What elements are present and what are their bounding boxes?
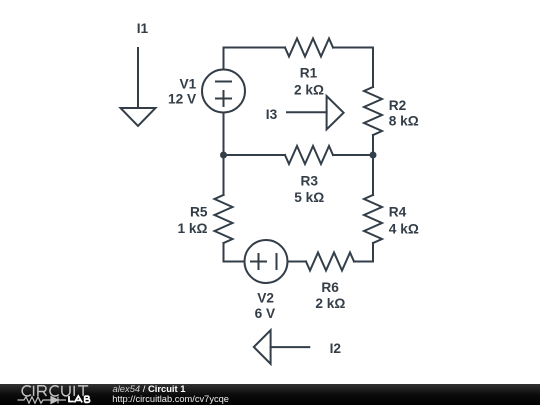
logo LAB lettering: [69, 396, 90, 402]
resistor R4: [364, 195, 382, 243]
svg-text:I2: I2: [330, 341, 342, 356]
resistor R6: [306, 253, 354, 271]
current source I2 arrow: [254, 330, 309, 364]
svg-text:2 kΩ: 2 kΩ: [294, 83, 324, 98]
svg-text:R2: R2: [389, 98, 407, 113]
svg-text:R6: R6: [321, 280, 339, 295]
svg-text:R3: R3: [300, 174, 318, 189]
svg-text:8 kΩ: 8 kΩ: [389, 114, 419, 129]
svg-text:http://circuitlab.com/cv7ycqe: http://circuitlab.com/cv7ycqe: [112, 394, 229, 404]
logo CIRCUIT lettering: [22, 386, 88, 396]
svg-text:R5: R5: [190, 205, 208, 220]
resistor R1: [285, 39, 333, 57]
wire: node A down to R5 top: [223, 155, 225, 195]
wire: node B down to R4 top: [372, 155, 374, 195]
wire: V2 right to R6 left: [288, 261, 307, 263]
current source I3 arrow: [287, 96, 344, 129]
wire top: V1 top to R1 left: [224, 48, 286, 70]
svg-text:1 kΩ: 1 kΩ: [177, 221, 207, 236]
voltage source V1: [202, 70, 245, 113]
wire: R5 bottom to V2 left: [224, 243, 245, 262]
svg-text:R1: R1: [300, 66, 318, 81]
svg-text:6 V: 6 V: [255, 306, 276, 321]
svg-text:V2: V2: [257, 291, 274, 306]
svg-text:12 V: 12 V: [168, 92, 197, 107]
wire top: R1 right to right rail top: [333, 48, 373, 88]
svg-text:4 kΩ: 4 kΩ: [389, 221, 419, 236]
logo resistor-diode glyph: [18, 397, 67, 404]
resistor R2: [364, 87, 382, 135]
current source I1 arrow: [121, 48, 156, 126]
svg-text:V1: V1: [179, 77, 196, 92]
wire: R6 right to right rail bottom: [354, 243, 373, 262]
svg-text:5 kΩ: 5 kΩ: [294, 190, 324, 205]
voltage source V2: [245, 240, 288, 283]
wire: R3 right to node B: [333, 154, 373, 156]
node B junction dot: [370, 152, 377, 159]
resistor R3: [285, 146, 333, 164]
node A junction dot: [220, 152, 227, 159]
wire: node A to R3 left: [224, 154, 286, 156]
footer bar: [0, 384, 540, 405]
svg-text:I1: I1: [137, 21, 149, 36]
wire: V1 bottom to node A: [223, 113, 225, 156]
svg-text:R4: R4: [389, 205, 407, 220]
wire: R2 bottom to node B: [372, 135, 374, 155]
svg-text:I3: I3: [266, 107, 278, 122]
resistor R5: [215, 195, 233, 243]
svg-text:alex54 / Circuit 1: alex54 / Circuit 1: [113, 383, 186, 394]
svg-text:2 kΩ: 2 kΩ: [315, 296, 345, 311]
